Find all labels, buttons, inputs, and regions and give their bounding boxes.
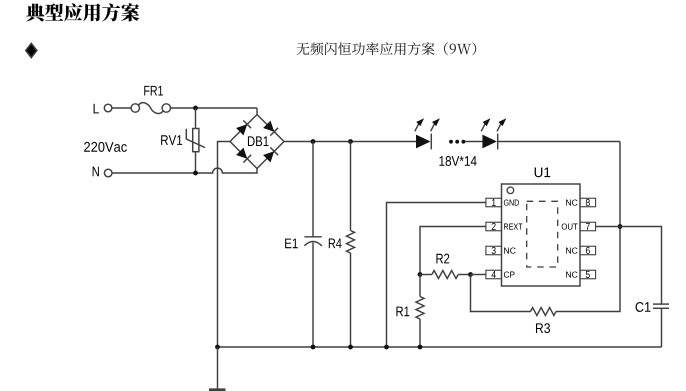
wire dots to LED D6	[465, 141, 482, 143]
wire bridge to LED string	[284, 141, 416, 143]
resistor R4	[347, 231, 355, 254]
LED D5	[415, 118, 440, 149]
wire node L1 to RV1	[195, 108, 197, 129]
ground symbol	[209, 347, 226, 390]
dashed internal block	[527, 201, 558, 267]
label 18V*14	[439, 156, 476, 166]
wire R1 top lead	[419, 275, 421, 297]
pin name NC pin 8	[566, 199, 577, 205]
junction node A	[418, 272, 423, 277]
pin name CP pin 4	[504, 271, 515, 277]
pin box 4	[486, 270, 502, 279]
pin name OUT pin 7	[562, 223, 578, 229]
junction R4 bottom	[348, 345, 353, 350]
pin box 2	[486, 222, 502, 231]
resistor R3	[531, 308, 557, 316]
diode D2 upper-left of bridge	[236, 120, 251, 135]
label R4	[329, 238, 342, 248]
label R3	[536, 323, 550, 333]
junction E1 top	[311, 139, 316, 144]
capacitor E1	[304, 237, 321, 246]
pin box 3	[486, 246, 502, 255]
wire GND pin1 to ground rail	[387, 203, 486, 348]
junction node N1	[193, 171, 198, 176]
pin box 5	[580, 270, 596, 279]
resistor R1	[416, 297, 424, 320]
junction E1 bottom	[311, 345, 316, 350]
wire R4 top lead	[350, 142, 352, 231]
terminal L	[104, 104, 112, 112]
ellipsis dots	[449, 140, 465, 144]
wire top rail into bridge	[256, 108, 258, 115]
terminal N	[104, 169, 112, 177]
bullet diamond	[26, 43, 37, 57]
label RV1	[161, 135, 182, 145]
wire REXT pin2 to node A	[420, 227, 486, 275]
wire fuse to node L1	[171, 107, 258, 109]
varistor RV1	[186, 129, 205, 152]
pin box 7	[580, 222, 596, 231]
pin-1 indicator	[507, 187, 514, 194]
label R2	[436, 254, 449, 264]
label U1	[535, 167, 551, 177]
wire bridge left arm	[218, 142, 231, 348]
resistor R2	[420, 271, 471, 279]
bridge rectifier DB1 body	[230, 115, 284, 169]
pin name NC pin 3	[504, 247, 515, 253]
label FR1	[144, 86, 163, 96]
wire E1 top lead	[312, 142, 314, 237]
junction ground left	[215, 345, 220, 350]
label L	[94, 104, 99, 114]
junction GND wire bottom	[384, 345, 389, 350]
junction OUT node	[618, 224, 623, 229]
junction R1 bottom	[418, 345, 423, 350]
label R1	[396, 307, 409, 317]
diode D1 lower-left of bridge	[236, 148, 251, 163]
title text 典型应用方案	[26, 3, 139, 21]
pin box 1	[486, 198, 502, 207]
wire E1 bottom lead	[312, 243, 314, 347]
ground rail	[218, 346, 662, 348]
label DB1	[248, 136, 269, 146]
pin box 8	[580, 198, 596, 207]
wire LED string to OUT drop	[498, 141, 620, 143]
wire node B to CP pin4	[471, 274, 486, 276]
junction node L1	[193, 106, 198, 111]
capacitor C1	[653, 304, 669, 308]
pin box 6	[580, 246, 596, 255]
fuse FR1	[131, 103, 170, 114]
wire L to fuse	[112, 107, 131, 109]
wire OUT pin7 stub	[596, 226, 620, 228]
pin name GND pin 1	[504, 199, 519, 205]
pin name NC pin 6	[566, 247, 577, 253]
wire node B down to R3	[471, 275, 531, 312]
wire N rail with hop	[112, 168, 257, 173]
label C1	[636, 302, 651, 312]
label N	[93, 167, 99, 177]
junction R4 top	[348, 139, 353, 144]
wire RV1 to node N1	[195, 152, 197, 173]
wire R1 bottom lead	[419, 319, 421, 347]
label 220Vac	[84, 142, 127, 152]
caption text 无频闪恒功率应用方案（9W）	[297, 42, 477, 55]
wire R4 bottom lead	[350, 253, 352, 347]
junction node B	[468, 272, 473, 277]
label E1	[285, 239, 298, 249]
pin name NC pin 5	[566, 271, 577, 277]
wire C1 bottom lead	[661, 308, 663, 347]
LED D6	[481, 118, 506, 149]
diode D3 upper-right of bridge	[263, 121, 278, 136]
wire OUT node to C1	[620, 227, 662, 305]
op IC U1 body	[502, 184, 581, 286]
diode D4 lower-right of bridge	[263, 147, 278, 162]
wire OUT drop	[619, 142, 621, 227]
pin name REXT pin 2	[504, 224, 522, 230]
wire R3 to OUT node	[556, 227, 620, 312]
